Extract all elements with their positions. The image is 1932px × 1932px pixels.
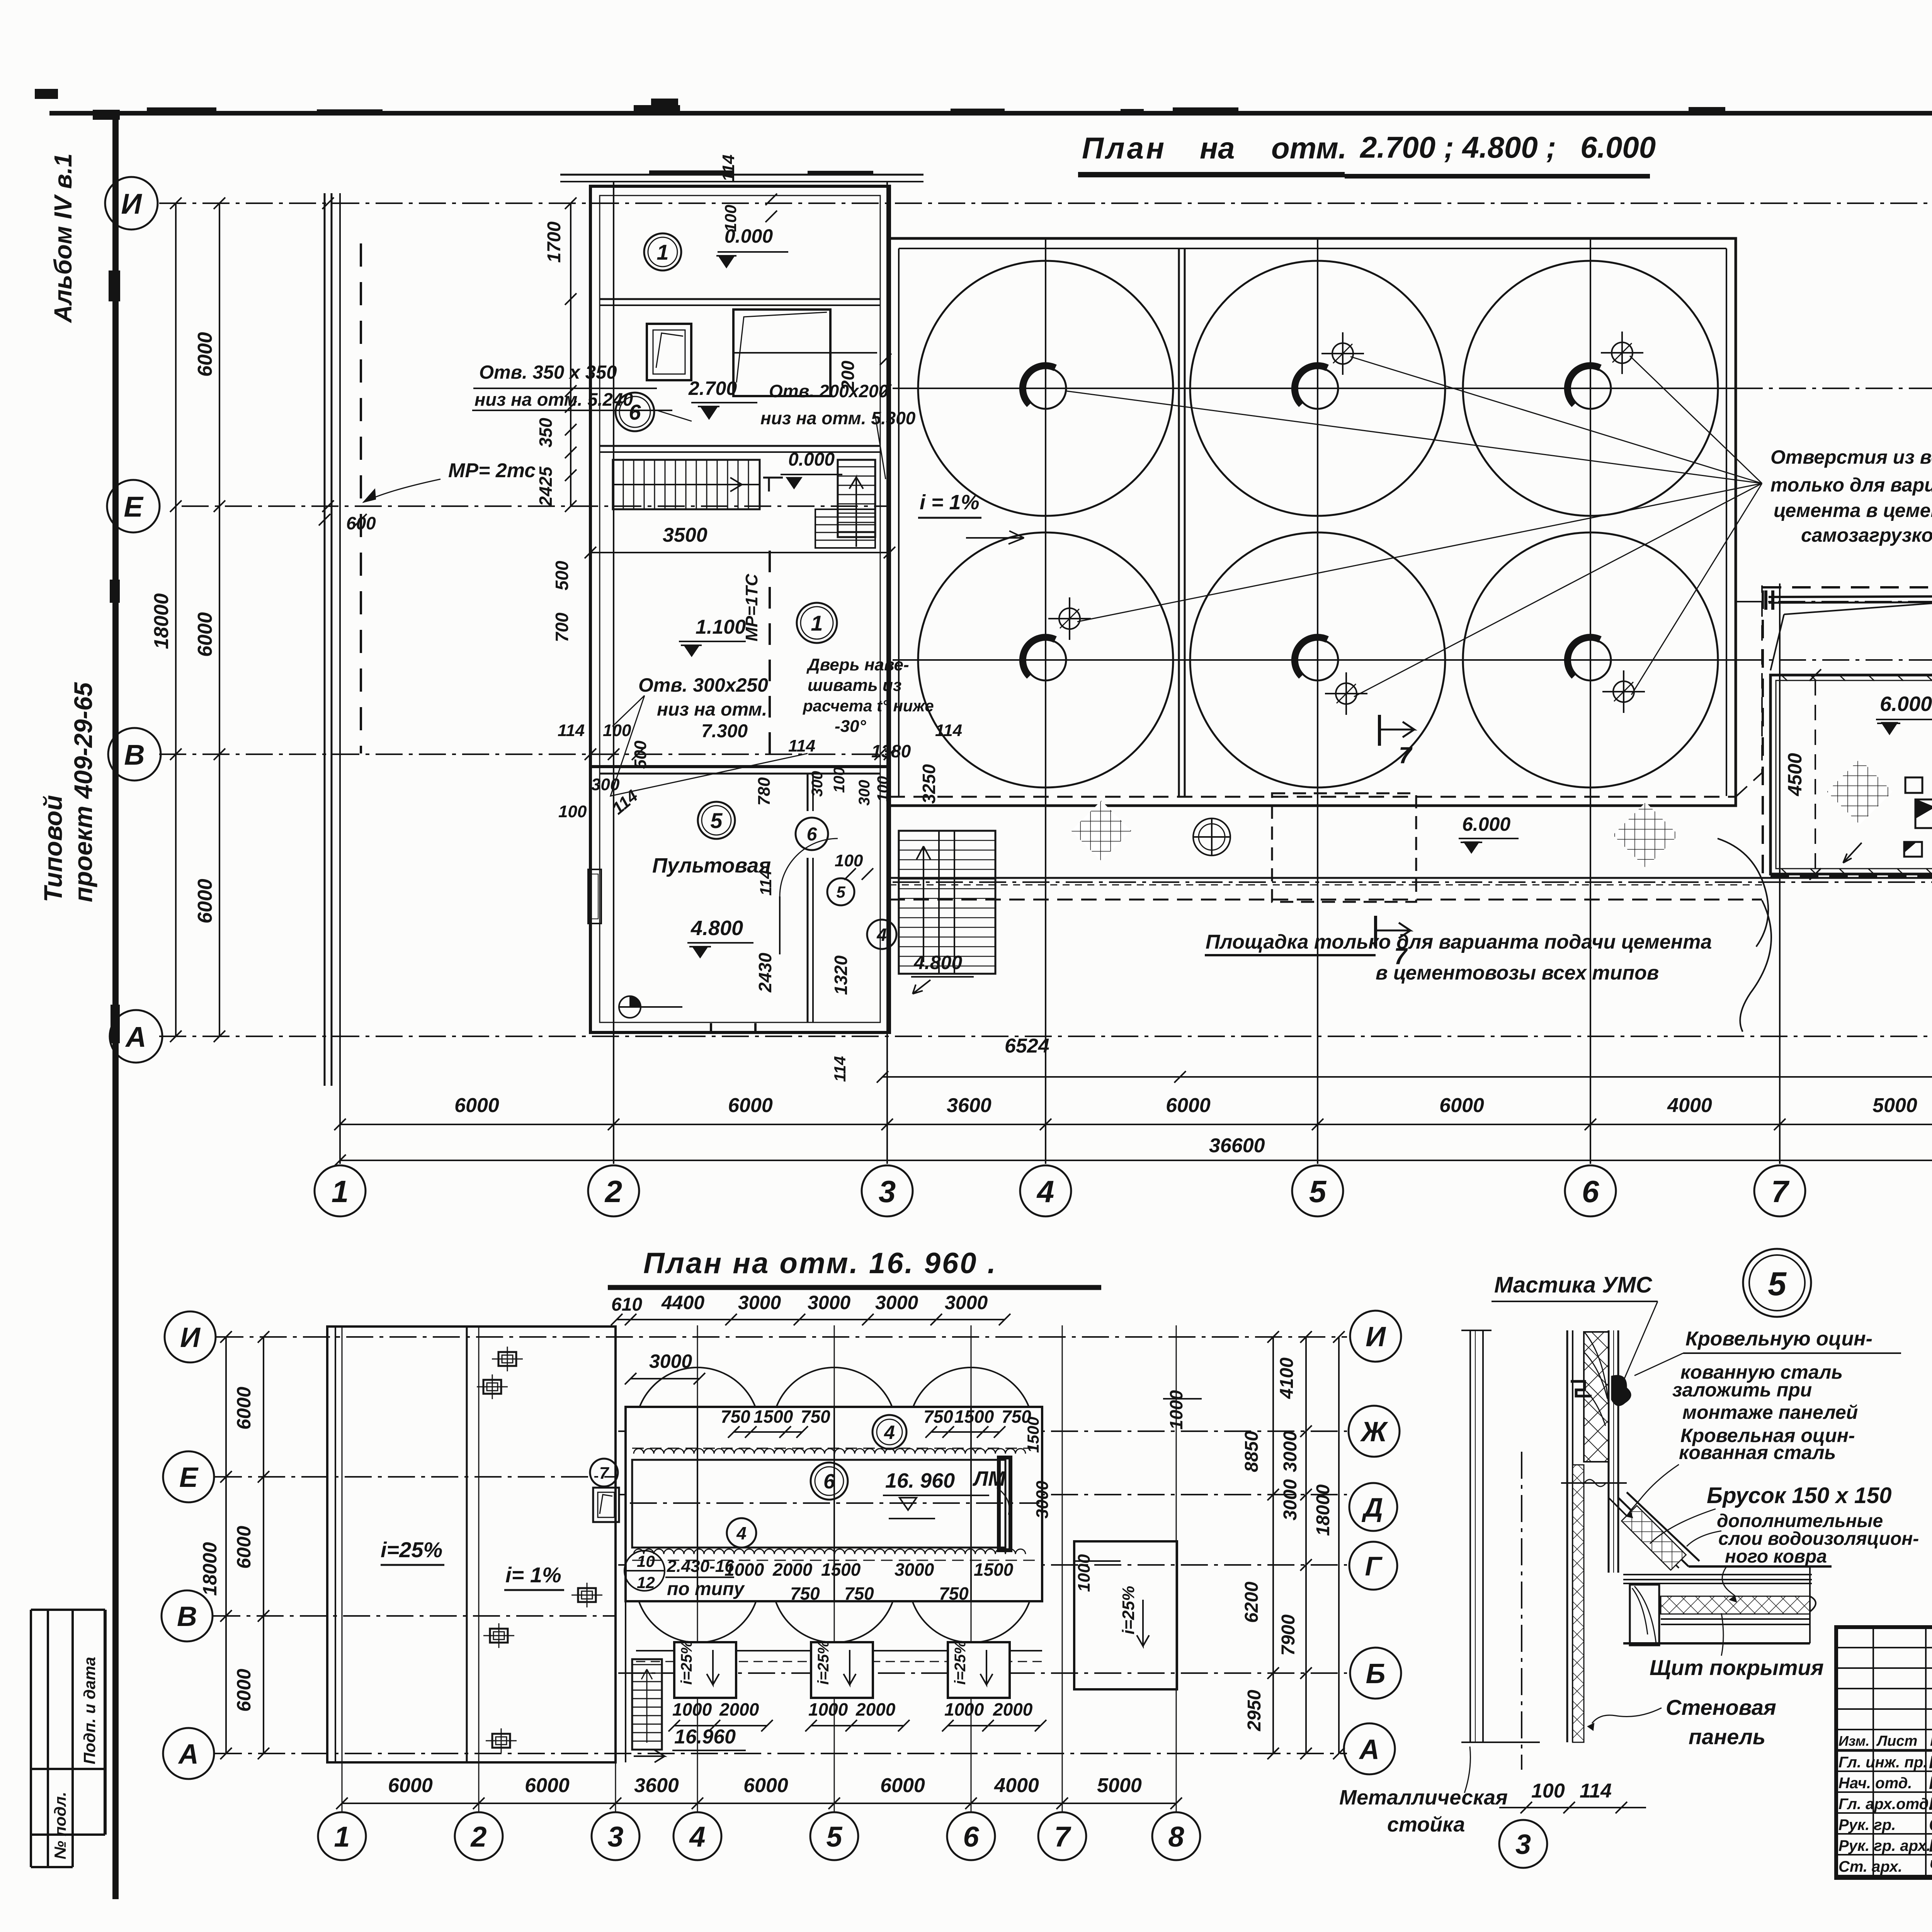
lp canopy 1 bbox=[674, 1642, 736, 1698]
leader dop sloi bbox=[1687, 1531, 1721, 1546]
svg-text:Смирнова: Смирнова bbox=[1929, 1815, 1932, 1835]
leader fan to silo holes bbox=[1350, 357, 1762, 483]
svg-text:114: 114 bbox=[719, 155, 738, 182]
svg-text:750: 750 bbox=[801, 1406, 830, 1427]
svg-text:114: 114 bbox=[1580, 1780, 1612, 1802]
svg-text:3: 3 bbox=[1515, 1829, 1531, 1860]
svg-text:6000: 6000 bbox=[233, 1526, 255, 1569]
svg-text:Отв. 300х250: Отв. 300х250 bbox=[638, 674, 768, 696]
crane line dashed bbox=[360, 243, 362, 753]
svg-text:расчета t° ниже: расчета t° ниже bbox=[803, 697, 934, 715]
lp circle 4 bottom bbox=[727, 1518, 756, 1548]
detail circle 3 bbox=[1499, 1820, 1547, 1868]
svg-text:6000: 6000 bbox=[454, 1094, 499, 1117]
svg-text:4000: 4000 bbox=[1667, 1094, 1712, 1117]
grid line И bbox=[159, 202, 1932, 204]
svg-text:18000: 18000 bbox=[150, 593, 173, 649]
section mark 7 upper bbox=[1378, 715, 1381, 746]
svg-text:6: 6 bbox=[823, 1470, 835, 1493]
svg-text:6000: 6000 bbox=[1439, 1094, 1484, 1117]
svg-text:3: 3 bbox=[879, 1174, 896, 1209]
lp circle Б right bbox=[1350, 1648, 1401, 1699]
silo 3 bbox=[1463, 261, 1718, 516]
section mark 7 lower bbox=[1374, 916, 1377, 947]
silo 1 hole bbox=[1025, 368, 1066, 409]
bay divider wall bbox=[1178, 248, 1180, 797]
svg-text:кованная сталь: кованная сталь bbox=[1679, 1442, 1836, 1463]
lp circle В left bbox=[162, 1590, 213, 1641]
lp top dim row bbox=[617, 1319, 1005, 1320]
annex dim 4500 bbox=[1815, 680, 1816, 876]
svg-text:цемента в цементовозы с: цемента в цементовозы с bbox=[1774, 500, 1932, 521]
svg-text:i=25%: i=25% bbox=[952, 1640, 969, 1685]
panel insulation hatch bbox=[1573, 1465, 1584, 1742]
lp left stair bbox=[632, 1659, 662, 1750]
funnel opening mark 1 bbox=[1332, 343, 1353, 364]
svg-text:7: 7 bbox=[1771, 1174, 1790, 1209]
svg-text:2425: 2425 bbox=[536, 466, 556, 507]
silo 5 bbox=[1190, 532, 1445, 787]
svg-text:Е: Е bbox=[124, 491, 144, 523]
svg-text:И: И bbox=[121, 188, 142, 220]
svg-text:6000: 6000 bbox=[728, 1094, 773, 1117]
pultovaya north wall bbox=[590, 765, 889, 768]
svg-text:Рук. гр. арх.: Рук. гр. арх. bbox=[1838, 1837, 1930, 1854]
bottom wall door ticks bbox=[710, 1023, 712, 1033]
detail axis dashdot bbox=[1521, 1452, 1522, 1770]
panel outer layers bbox=[1608, 1330, 1610, 1573]
svg-text:1000: 1000 bbox=[1166, 1390, 1186, 1430]
svg-text:А: А bbox=[125, 1021, 146, 1053]
lp grid Е bbox=[215, 1476, 616, 1478]
left wall window bbox=[588, 869, 601, 923]
lp grid А bbox=[215, 1753, 1347, 1754]
svg-text:5: 5 bbox=[826, 1821, 843, 1853]
svg-text:8850: 8850 bbox=[1242, 1431, 1262, 1472]
lp grid col 3 bbox=[615, 1325, 616, 1812]
lp lantern scallop top bbox=[634, 1449, 1026, 1454]
svg-text:36600: 36600 bbox=[1209, 1134, 1265, 1157]
svg-text:Отв. 200х200: Отв. 200х200 bbox=[769, 381, 889, 401]
svg-text:114: 114 bbox=[831, 1056, 849, 1082]
svg-text:6000: 6000 bbox=[743, 1774, 788, 1797]
funnel opening mark 2 bbox=[1612, 342, 1633, 363]
svg-text:3000: 3000 bbox=[649, 1350, 692, 1372]
svg-text:1500: 1500 bbox=[954, 1406, 994, 1427]
silo 4 hole bbox=[1025, 639, 1066, 680]
rail line bbox=[324, 193, 326, 1086]
svg-text:Мастика УМС: Мастика УМС bbox=[1494, 1272, 1653, 1298]
svg-text:i=25%: i=25% bbox=[815, 1640, 832, 1685]
svg-text:6: 6 bbox=[963, 1821, 979, 1853]
lp canopy 3 bbox=[948, 1642, 1010, 1698]
top roof slab lines bbox=[560, 174, 923, 176]
lp grid Д bbox=[618, 1494, 1347, 1495]
lp circle Е left bbox=[163, 1451, 214, 1502]
lp roof drains bbox=[498, 1352, 516, 1366]
svg-text:2000: 2000 bbox=[719, 1699, 759, 1719]
room circle 5 pultovaya bbox=[698, 802, 735, 839]
svg-text:Типовой: Типовой bbox=[39, 795, 67, 902]
svg-text:Пультовая: Пультовая bbox=[652, 854, 771, 877]
svg-text:1000: 1000 bbox=[672, 1699, 712, 1719]
gallery hatch square left bbox=[1071, 801, 1131, 861]
svg-text:Лист: Лист bbox=[1876, 1733, 1917, 1749]
svg-text:4: 4 bbox=[1036, 1174, 1054, 1209]
leader brusok bbox=[1650, 1509, 1716, 1544]
svg-text:№ документа: № документа bbox=[1930, 1733, 1932, 1749]
svg-text:100: 100 bbox=[831, 767, 848, 793]
silo 4 bbox=[918, 532, 1173, 787]
svg-text:1: 1 bbox=[334, 1821, 350, 1853]
lp circle Ж right bbox=[1349, 1406, 1400, 1457]
svg-text:6000: 6000 bbox=[233, 1669, 255, 1712]
wood block top hatch bbox=[1584, 1332, 1609, 1462]
annex square 1 bbox=[1905, 777, 1922, 793]
roof right end curl bbox=[1810, 1596, 1816, 1612]
column circle 5 bbox=[1292, 1165, 1343, 1216]
page top border bbox=[49, 111, 1932, 116]
grid col 4 bbox=[1045, 240, 1046, 1164]
monorail dashed bbox=[769, 551, 771, 764]
svg-text:панель: панель bbox=[1689, 1725, 1765, 1749]
svg-text:i=25%: i=25% bbox=[678, 1640, 695, 1685]
svg-text:2.700: 2.700 bbox=[688, 378, 737, 399]
lp ref circle 10/12 bbox=[624, 1551, 665, 1591]
svg-text:3000: 3000 bbox=[945, 1292, 988, 1313]
svg-text:6.000: 6.000 bbox=[1462, 813, 1510, 835]
svg-text:1000: 1000 bbox=[944, 1699, 984, 1719]
roof bottom line bbox=[1623, 1642, 1810, 1645]
svg-text:Гл. инж. пр.: Гл. инж. пр. bbox=[1838, 1754, 1927, 1771]
svg-text:6000: 6000 bbox=[880, 1774, 925, 1797]
svg-text:в цементовозы всех типов: в цементовозы всех типов bbox=[1376, 962, 1659, 984]
svg-text:2.430-16: 2.430-16 bbox=[667, 1557, 734, 1576]
svg-text:114: 114 bbox=[788, 736, 815, 755]
grid circle В left bbox=[108, 728, 161, 781]
svg-text:1000: 1000 bbox=[1075, 1554, 1094, 1592]
dim row spans top plan bbox=[340, 1124, 1932, 1125]
lp circle 4 top bbox=[872, 1415, 906, 1449]
svg-text:7: 7 bbox=[1399, 742, 1413, 768]
annex open lid diagonals bbox=[1784, 602, 1932, 614]
svg-text:отм.: отм. bbox=[1271, 131, 1347, 165]
svg-text:Гл. арх.отд.: Гл. арх.отд. bbox=[1838, 1796, 1932, 1813]
lp silo arcs bbox=[635, 1367, 760, 1492]
svg-text:Чистякова: Чистякова bbox=[1929, 1856, 1932, 1876]
svg-text:750: 750 bbox=[939, 1583, 969, 1604]
svg-text:2950: 2950 bbox=[1244, 1690, 1265, 1731]
grid col 3 bbox=[886, 182, 888, 1164]
dim line 18000 left bbox=[175, 203, 177, 1036]
detail left post bbox=[1469, 1330, 1471, 1742]
svg-text:750: 750 bbox=[721, 1406, 750, 1427]
svg-text:7900: 7900 bbox=[1278, 1614, 1299, 1656]
grid col 5 bbox=[1317, 240, 1318, 1164]
lp lantern end cap bbox=[999, 1458, 1010, 1550]
gallery circle symbol bbox=[1193, 818, 1230, 855]
lp grid В bbox=[213, 1615, 616, 1617]
page left border bbox=[112, 113, 119, 1899]
svg-text:2: 2 bbox=[470, 1821, 486, 1853]
lp column circle 7 bbox=[1038, 1812, 1086, 1860]
svg-text:100: 100 bbox=[835, 851, 863, 870]
grid line Д bbox=[1735, 601, 1932, 602]
svg-text:7: 7 bbox=[599, 1464, 610, 1483]
svg-text:4500: 4500 bbox=[1784, 753, 1806, 796]
column circle 1 bbox=[315, 1165, 366, 1216]
svg-text:3000: 3000 bbox=[1280, 1431, 1301, 1472]
vent shaft bbox=[733, 310, 830, 396]
svg-text:4.800: 4.800 bbox=[913, 952, 962, 973]
lp grid И bbox=[216, 1336, 1347, 1338]
svg-text:Рыбкина: Рыбкина bbox=[1929, 1773, 1932, 1793]
svg-text:самозагрузкой: самозагрузкой bbox=[1801, 524, 1932, 546]
stairs wall bbox=[600, 445, 880, 447]
lp grid Б bbox=[618, 1672, 1347, 1674]
lp column circle 8 bbox=[1152, 1812, 1200, 1860]
svg-text:-30°: -30° bbox=[835, 717, 866, 736]
svg-text:300: 300 bbox=[856, 780, 873, 806]
svg-text:2000: 2000 bbox=[855, 1699, 896, 1719]
svg-text:4.800: 4.800 bbox=[690, 917, 743, 940]
svg-text:Кровельную оцин-: Кровельную оцин- bbox=[1685, 1328, 1872, 1350]
svg-text:ЛМ: ЛМ bbox=[972, 1467, 1006, 1490]
room circle 4 small bbox=[867, 920, 896, 949]
svg-text:6000: 6000 bbox=[1166, 1094, 1211, 1117]
svg-text:750: 750 bbox=[790, 1583, 820, 1604]
svg-text:1.100: 1.100 bbox=[696, 616, 746, 638]
svg-text:i= 1%: i= 1% bbox=[505, 1563, 561, 1587]
column circle 4 bbox=[1020, 1165, 1071, 1216]
lp circle Д right bbox=[1349, 1483, 1397, 1531]
grid col 7 bbox=[1779, 583, 1781, 1164]
svg-text:6000: 6000 bbox=[194, 879, 216, 923]
svg-text:6524: 6524 bbox=[1005, 1035, 1049, 1057]
svg-text:низ на отм.: низ на отм. bbox=[657, 699, 767, 720]
svg-text:8: 8 bbox=[1168, 1821, 1184, 1853]
room circle 6 bbox=[616, 393, 654, 431]
silo 5 hole bbox=[1297, 639, 1338, 680]
svg-text:4: 4 bbox=[736, 1523, 747, 1543]
svg-text:И: И bbox=[180, 1322, 201, 1353]
svg-text:5: 5 bbox=[710, 808, 723, 833]
annex crane beam bbox=[1769, 596, 1932, 597]
title block frame bbox=[1836, 1627, 1932, 1878]
funnel opening mark 3 bbox=[1059, 608, 1080, 629]
svg-text:18000: 18000 bbox=[199, 1542, 221, 1596]
svg-text:0.000: 0.000 bbox=[788, 449, 835, 470]
svg-text:16. 960: 16. 960 bbox=[885, 1469, 955, 1492]
svg-text:600: 600 bbox=[346, 513, 376, 533]
svg-text:4000: 4000 bbox=[994, 1774, 1039, 1797]
annex pencil arrow bbox=[1843, 843, 1862, 863]
svg-text:Шарганов: Шарганов bbox=[1929, 1835, 1932, 1855]
svg-text:750: 750 bbox=[923, 1406, 953, 1427]
svg-text:114: 114 bbox=[558, 721, 585, 740]
svg-text:750: 750 bbox=[844, 1583, 874, 1604]
svg-text:проект 409-29-65: проект 409-29-65 bbox=[69, 682, 97, 902]
svg-text:низ на отм. 5.300: низ на отм. 5.300 bbox=[760, 408, 916, 428]
room circle 1 bbox=[644, 233, 681, 270]
detail circle 5 bbox=[1743, 1249, 1811, 1317]
svg-text:114: 114 bbox=[757, 870, 775, 896]
svg-text:4: 4 bbox=[884, 1422, 895, 1443]
annex hatch bbox=[1827, 759, 1893, 825]
svg-text:Щит покрытия: Щит покрытия bbox=[1650, 1655, 1824, 1680]
svg-text:1: 1 bbox=[811, 611, 823, 635]
lp bottom dim row bbox=[342, 1803, 1176, 1804]
svg-text:500: 500 bbox=[552, 561, 572, 590]
svg-text:В: В bbox=[124, 739, 145, 771]
silo 2 bbox=[1190, 261, 1445, 516]
svg-text:1500: 1500 bbox=[753, 1406, 793, 1427]
svg-text:заложить при: заложить при bbox=[1672, 1379, 1812, 1401]
svg-text:Альбом IV в.1: Альбом IV в.1 bbox=[49, 153, 77, 323]
lp grid col 8 bbox=[1176, 1325, 1177, 1812]
room circle 6 small bbox=[796, 818, 828, 850]
svg-text:4100: 4100 bbox=[1277, 1357, 1297, 1399]
svg-text:i=25%: i=25% bbox=[1119, 1586, 1138, 1634]
svg-text:i = 1%: i = 1% bbox=[920, 491, 980, 514]
svg-text:4: 4 bbox=[876, 925, 887, 945]
detail wall panel bbox=[1566, 1330, 1568, 1742]
lp column circle 3 bbox=[592, 1812, 639, 1860]
svg-text:6: 6 bbox=[807, 824, 817, 845]
svg-text:Дверь наве-: Дверь наве- bbox=[806, 655, 909, 674]
annex square 3 bbox=[1904, 842, 1922, 857]
grid line Ж bbox=[893, 388, 1736, 389]
window left room2 bbox=[647, 324, 691, 380]
svg-text:3000: 3000 bbox=[808, 1292, 850, 1313]
gallery opening dashed rect bbox=[1272, 793, 1416, 902]
svg-text:3250: 3250 bbox=[919, 764, 939, 804]
svg-text:5: 5 bbox=[836, 883, 845, 901]
funnel opening mark 4 bbox=[1336, 683, 1357, 704]
grid line В bbox=[159, 753, 889, 755]
svg-text:МР= 2тс: МР= 2тс bbox=[448, 459, 536, 482]
svg-text:780: 780 bbox=[755, 777, 774, 806]
svg-text:6.000: 6.000 bbox=[1880, 692, 1932, 716]
svg-text:5: 5 bbox=[1309, 1174, 1327, 1209]
annex walls bbox=[1770, 675, 1932, 874]
svg-text:300: 300 bbox=[591, 775, 620, 794]
svg-text:100: 100 bbox=[558, 802, 587, 821]
grid line Е bbox=[182, 505, 889, 507]
svg-text:В: В bbox=[177, 1601, 197, 1632]
slope hatch panel bbox=[1622, 1506, 1686, 1570]
svg-text:Площадка только для варианта: Площадка только для варианта подачи цеме… bbox=[1206, 931, 1712, 953]
svg-text:Ж: Ж bbox=[1360, 1417, 1388, 1447]
lp lantern inner rect bbox=[632, 1460, 1005, 1548]
silo 6 bbox=[1463, 532, 1718, 787]
lp grid col 7 bbox=[1062, 1325, 1063, 1812]
grid col 6 bbox=[1590, 240, 1591, 1164]
svg-text:1500: 1500 bbox=[821, 1560, 861, 1580]
mastic blob bbox=[1612, 1376, 1631, 1405]
gallery hatch square right bbox=[1613, 802, 1679, 868]
svg-text:3600: 3600 bbox=[947, 1094, 992, 1117]
svg-text:монтаже панелей: монтаже панелей bbox=[1682, 1401, 1858, 1423]
svg-text:Отв. 350 х 350: Отв. 350 х 350 bbox=[479, 362, 617, 383]
svg-text:Брусок 150 х 150: Брусок 150 х 150 bbox=[1707, 1483, 1891, 1508]
silo enclosure bbox=[889, 238, 1736, 806]
lp annex roof bbox=[1074, 1541, 1177, 1689]
column circle 6 bbox=[1565, 1165, 1616, 1216]
dim total 36600 bbox=[340, 1160, 1932, 1161]
svg-text:Назаров: Назаров bbox=[1929, 1752, 1932, 1772]
lp grid col 2 bbox=[478, 1325, 480, 1812]
svg-text:Отверстия из воронок силосов: Отверстия из воронок силосов bbox=[1770, 446, 1932, 468]
svg-text:4400: 4400 bbox=[661, 1292, 704, 1313]
lp grid Ж bbox=[618, 1430, 1347, 1432]
lp column circle 2 bbox=[455, 1812, 503, 1860]
svg-text:6000: 6000 bbox=[388, 1774, 433, 1797]
grid circle Е left bbox=[107, 480, 160, 532]
lp lantern col lines bbox=[697, 1407, 698, 1601]
svg-text:3000: 3000 bbox=[738, 1292, 781, 1313]
lp grid col 4 bbox=[697, 1325, 698, 1812]
annex dashed outline bbox=[1763, 587, 1932, 876]
building outer wall bbox=[590, 186, 889, 1032]
silo 1 bbox=[918, 261, 1173, 516]
svg-text:1: 1 bbox=[656, 240, 668, 264]
svg-text:А: А bbox=[1359, 1734, 1379, 1765]
grid line А bbox=[159, 1036, 1932, 1037]
svg-text:4: 4 bbox=[689, 1821, 705, 1853]
svg-text:Б: Б bbox=[1366, 1658, 1386, 1689]
svg-text:1: 1 bbox=[332, 1174, 349, 1209]
grid line Г bbox=[893, 659, 1736, 661]
lp canopy 2 bbox=[811, 1642, 873, 1698]
svg-text:5000: 5000 bbox=[1097, 1774, 1142, 1797]
svg-text:16.960: 16.960 bbox=[674, 1726, 736, 1748]
flashing profile bbox=[1571, 1381, 1592, 1396]
svg-text:шивать из: шивать из bbox=[808, 676, 901, 695]
svg-text:500: 500 bbox=[631, 740, 650, 769]
lp circle И right bbox=[1350, 1311, 1401, 1362]
gallery right bend lines bbox=[1736, 585, 1762, 797]
svg-text:6000: 6000 bbox=[233, 1387, 255, 1430]
svg-text:2000: 2000 bbox=[993, 1699, 1033, 1719]
gallery stair bbox=[899, 831, 995, 974]
svg-text:Ст. арх.: Ст. арх. bbox=[1838, 1858, 1902, 1875]
lp window symbol bbox=[593, 1488, 619, 1522]
grid col 1 bbox=[339, 193, 341, 1164]
svg-text:по типу: по типу bbox=[667, 1579, 745, 1599]
grid line Б bbox=[893, 881, 1932, 883]
lp dim 6000s left bbox=[263, 1337, 264, 1753]
grid circle И left bbox=[105, 177, 158, 230]
svg-text:i=25%: i=25% bbox=[381, 1537, 442, 1562]
lp grid col 5 bbox=[834, 1325, 835, 1812]
room circle 5 small bbox=[827, 878, 854, 905]
svg-text:№ подл.: № подл. bbox=[51, 1792, 69, 1859]
lp circle Г right bbox=[1349, 1542, 1397, 1590]
svg-text:7.300: 7.300 bbox=[701, 721, 748, 742]
svg-text:2: 2 bbox=[604, 1174, 622, 1209]
svg-text:3000: 3000 bbox=[875, 1292, 918, 1313]
svg-text:2430: 2430 bbox=[755, 952, 775, 993]
svg-text:1500: 1500 bbox=[974, 1560, 1014, 1580]
svg-text:Г: Г bbox=[1365, 1551, 1383, 1581]
gallery bottom dashed bbox=[889, 899, 1762, 901]
lp column circle 1 bbox=[318, 1812, 366, 1860]
svg-text:Изм.: Изм. bbox=[1838, 1733, 1869, 1749]
lp column circle 4 bbox=[673, 1812, 721, 1860]
lp grid Г bbox=[618, 1564, 1347, 1566]
lp roof outline bbox=[327, 1327, 616, 1762]
